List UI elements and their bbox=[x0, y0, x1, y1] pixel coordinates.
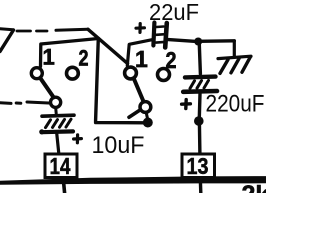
svg-text:220uF: 220uF bbox=[206, 91, 265, 118]
svg-text:14: 14 bbox=[50, 153, 71, 179]
svg-text:1: 1 bbox=[135, 46, 148, 72]
svg-text:22uF: 22uF bbox=[149, 0, 199, 25]
svg-text:10uF: 10uF bbox=[92, 132, 145, 159]
svg-text:2k: 2k bbox=[242, 181, 267, 193]
svg-text:2: 2 bbox=[166, 47, 177, 73]
svg-text:13: 13 bbox=[187, 153, 209, 179]
svg-text:1: 1 bbox=[43, 45, 55, 70]
svg-text:2: 2 bbox=[79, 46, 89, 71]
